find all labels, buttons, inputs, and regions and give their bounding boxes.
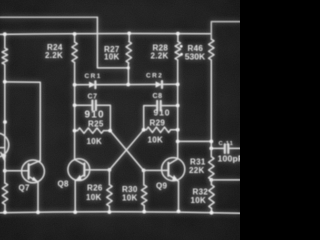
node X top-left <box>108 129 112 133</box>
resistor (left, upper) <box>2 48 7 65</box>
resistor R29 <box>144 129 147 131</box>
node C8 right <box>176 104 180 108</box>
transistor Q8 <box>68 159 110 212</box>
node bus R32 <box>210 211 214 215</box>
node link left <box>176 140 180 144</box>
resistor R24 <box>74 34 76 42</box>
artifact specks near R46 <box>180 45 183 48</box>
node C11 left <box>209 147 213 151</box>
wire net A drop to R27 node <box>97 17 128 68</box>
resistor R27 <box>128 33 130 41</box>
node left rail Q7 base junction <box>3 169 7 173</box>
node diode row left <box>73 83 77 87</box>
node bus R30 <box>142 210 146 214</box>
node R25 left <box>73 129 77 133</box>
wire diode row <box>75 83 178 86</box>
node bus R26 <box>108 210 112 214</box>
wire top rail net A <box>0 16 97 18</box>
diode CR2 <box>156 81 162 87</box>
resistor R32 <box>210 180 212 185</box>
resistor R46 <box>209 39 214 60</box>
capacitor C7 <box>75 104 93 106</box>
node link right <box>209 140 213 144</box>
transistor Q9 <box>144 158 185 212</box>
node X top-right <box>142 128 146 132</box>
resistor R28 <box>177 34 179 42</box>
wire cross-couple TL-BR <box>110 131 144 171</box>
node R31 bottom <box>209 178 213 182</box>
wire Q8 collector column <box>74 63 76 160</box>
node diode row R27 junction <box>126 83 130 87</box>
resistor R31 <box>210 148 212 156</box>
node X bottom-right <box>142 169 146 173</box>
node R24 top <box>73 32 77 36</box>
node left rail dot <box>3 120 7 124</box>
wire Q9 collector column <box>177 60 179 159</box>
node C7 left <box>73 103 77 107</box>
resistor R25 <box>75 130 78 132</box>
capacitor C11 <box>211 147 224 149</box>
resistor R30 <box>143 170 145 185</box>
transistor Q7 <box>5 160 45 212</box>
node diode row right <box>176 83 180 87</box>
node R27/net-A elbow <box>127 66 130 69</box>
resistor (left, lower) <box>2 183 7 205</box>
wire ground bus <box>0 212 240 213</box>
node bus Q9 emitter <box>177 210 181 214</box>
transistor Q6 (clipped at left edge) <box>0 133 9 161</box>
wire left rail <box>4 34 6 48</box>
node R29 right <box>176 128 180 132</box>
wire Q9 collector to R46 link <box>178 140 212 142</box>
node bus Q8 emitter <box>73 210 77 214</box>
node left rail junction <box>3 80 7 84</box>
wire supply rail net B <box>0 33 211 36</box>
diode CR1 <box>89 82 95 88</box>
wire R46 top branch to right edge <box>211 22 240 40</box>
capacitor C8 <box>144 106 157 130</box>
wire Q7 collector branch <box>5 82 41 161</box>
wire cross-couple TR-BL <box>109 130 143 170</box>
node supply rail left <box>3 32 7 36</box>
node bus Q7 emitter <box>36 210 40 214</box>
wire output branch right edge <box>211 179 240 181</box>
node R28 top <box>176 32 180 36</box>
node X bottom-left <box>108 168 112 172</box>
node bus left rail <box>3 211 7 215</box>
film grain overlay <box>0 0 240 240</box>
resistor R26 <box>108 170 110 185</box>
node R27 top <box>127 32 131 36</box>
